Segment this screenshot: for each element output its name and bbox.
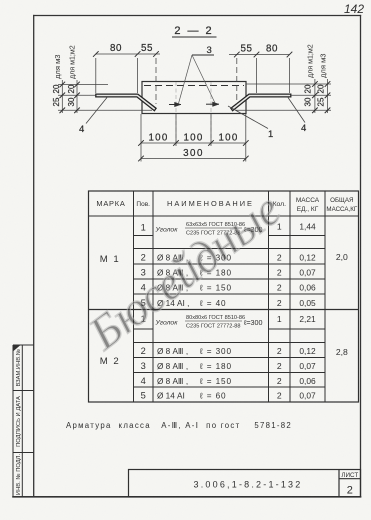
table outer border <box>89 191 359 402</box>
vertical extension line through box at 1/3 <box>175 82 177 144</box>
section title 2-2 <box>172 25 217 37</box>
strip corner mark <box>14 346 21 352</box>
table column lines <box>134 191 326 402</box>
rebar mark arrows item 3 (left) <box>169 102 181 107</box>
naimenovanie bar rows M1 <box>157 254 232 309</box>
naimenovanie M2 row1: ugolok with fraction <box>155 315 263 330</box>
concrete section box <box>142 82 246 114</box>
bottom dimension 300 <box>141 158 246 160</box>
vertical extension line through box at 2/3 <box>210 82 212 144</box>
qty column <box>277 222 282 401</box>
naimenovanie bar rows M2 <box>157 347 232 401</box>
pos numbers M1 <box>141 223 146 309</box>
watermark <box>79 183 290 360</box>
unit mass column <box>299 222 316 401</box>
M1/M2 section divider <box>89 309 359 311</box>
label 4 left with leader <box>79 98 107 136</box>
pos numbers M2 <box>141 314 146 401</box>
embedded plate item 4 right <box>231 94 291 111</box>
M1 row lines <box>134 236 326 295</box>
frame bottom <box>13 496 361 498</box>
top dimension chain right (55,80) <box>229 55 290 105</box>
left vertical dims <box>58 80 152 113</box>
top dimension chain left (80,55) <box>96 54 160 104</box>
rebar mark arrows item 3 (right) <box>206 102 219 107</box>
frame left <box>33 16 35 497</box>
label 4 right with leader <box>288 98 306 135</box>
bottom dimension 100x3 <box>141 114 246 162</box>
M2 row lines <box>134 329 326 387</box>
embedded plate item 4 left <box>96 94 156 111</box>
frame top <box>34 15 361 17</box>
scan noise overlay <box>0 0 1 1</box>
label 1 with leader <box>228 106 273 140</box>
header texts <box>96 197 357 213</box>
table header bottom line <box>89 215 359 217</box>
label 3 with leaders <box>179 45 216 104</box>
frame right <box>360 16 362 497</box>
dashed rebar line in box <box>144 85 244 87</box>
right vertical dims <box>236 79 331 113</box>
naimenovanie M1 row1: ugolok with fraction <box>155 222 263 237</box>
